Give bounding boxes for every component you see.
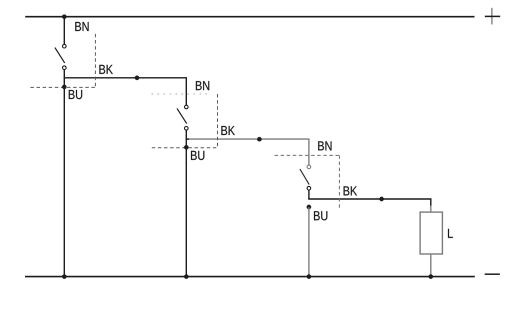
node: sensor1 BU terminal dot — [62, 85, 66, 89]
label sensor1 BU — [69, 90, 82, 99]
label sensor3 BN — [318, 141, 331, 150]
node: junction dot on sensor3 BK wire — [379, 197, 383, 201]
node: sensor3 BU dot on - rail — [307, 274, 311, 278]
wire sensor2 BK output to sensor3 (grey) — [187, 139, 309, 165]
plus symbol (+) — [485, 8, 500, 25]
wire sensor2 BU drop to - rail — [185, 130, 187, 276]
switch S1 blade — [55, 48, 65, 63]
node: sensor2 BU terminal dot — [184, 145, 188, 149]
node: sensor3 BU terminal dot — [307, 205, 311, 209]
switch S1 lower contact — [63, 66, 67, 70]
load resistor L body — [420, 212, 442, 254]
label sensor3 BU — [314, 211, 327, 220]
node: junction dot on sensor2 BK wire — [257, 137, 261, 141]
node: sensor1 BU dot on - rail — [62, 274, 66, 278]
node: load dot on - rail — [429, 274, 433, 278]
wire top supply rail (+) — [25, 16, 474, 18]
node: junction dot on sensor1 BK wire — [135, 76, 139, 80]
sensor3 dashed enclosure (top + right) — [275, 155, 341, 207]
switch S3 lower contact — [307, 186, 311, 190]
label sensor2 BN — [196, 81, 209, 90]
wire bottom supply rail (-) — [25, 276, 475, 278]
wire sensor3 BU drop to - rail (grey) — [308, 207, 310, 277]
wire sensor1 BU drop to - rail — [63, 70, 65, 277]
sensor1 dashed enclosure (right + bottom) — [30, 34, 95, 88]
wire sensor1 BK output to sensor2 — [64, 78, 187, 105]
switch S1 upper contact — [63, 44, 67, 48]
wire load top lead (grey) — [430, 206, 432, 213]
label sensor1 BK — [99, 65, 112, 74]
label sensor1 BN — [75, 22, 88, 31]
node: sensor2 BU dot on - rail — [184, 274, 188, 278]
label sensor2 BU — [191, 151, 204, 160]
wire sensor3 BK output to load — [308, 199, 431, 207]
label sensor2 BK — [221, 126, 234, 135]
switch S2 lower contact — [185, 127, 189, 131]
wire sensor1 BN drop — [63, 17, 65, 45]
sensor2 dotted enclosure top edge — [152, 93, 211, 95]
switch S3 blade — [300, 169, 309, 185]
sensor2 dashed enclosure (right + bottom) — [152, 94, 218, 148]
label sensor3 BK — [344, 186, 357, 195]
switch S3 upper contact (grey) — [307, 165, 311, 169]
label load L — [448, 229, 453, 238]
node: junction dot sensor1 BN on + rail — [62, 15, 66, 19]
wire sensor3 switch to BK corner — [308, 190, 310, 199]
switch S2 blade — [177, 108, 187, 123]
switch S2 upper contact — [185, 105, 189, 109]
wire load bottom lead to - rail (grey) — [430, 254, 432, 277]
minus symbol (-) — [485, 273, 500, 275]
wire sensor2 BK corner stub — [186, 138, 189, 140]
